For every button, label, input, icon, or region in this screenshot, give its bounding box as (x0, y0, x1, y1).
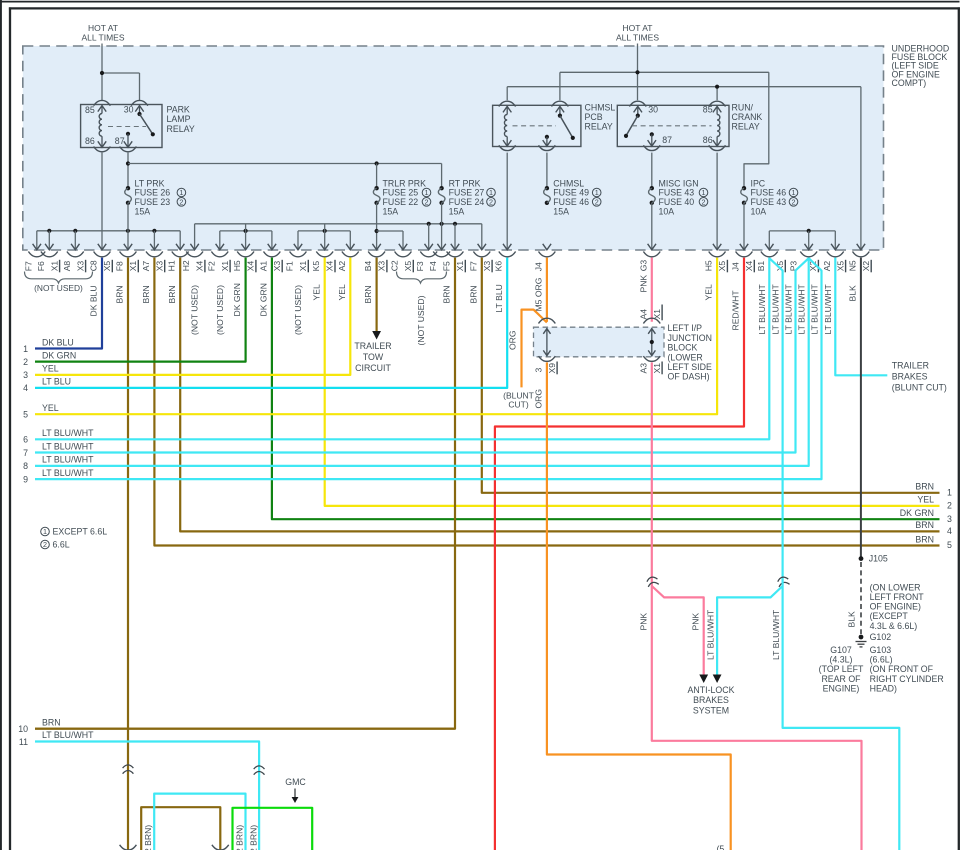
svg-text:X1: X1 (298, 261, 308, 272)
svg-text:15A: 15A (553, 206, 569, 216)
busB y231 (220, 230, 272, 232)
wires LT BLU/WHT fan from B1/P3/A2 (35, 258, 769, 440)
svg-text:X4: X4 (246, 261, 256, 272)
svg-text:X1: X1 (455, 261, 465, 272)
svg-text:LT BLU/WHT: LT BLU/WHT (809, 283, 819, 334)
svg-text:RELAY: RELAY (585, 122, 613, 132)
svg-text:BRN: BRN (141, 285, 151, 303)
svg-text:30: 30 (124, 104, 134, 114)
brace NOT USED C2-F4 group (397, 272, 447, 284)
wire BRN F7 to right row1 (482, 258, 940, 493)
wire YEL K5 to right row2 (325, 258, 940, 506)
wire BRN row10 (35, 728, 455, 730)
svg-text:YEL: YEL (704, 284, 714, 300)
svg-text:(ON FRONT OF: (ON FRONT OF (870, 664, 934, 674)
junction block LEFT I/P (dashed box) (534, 327, 665, 357)
svg-text:LT BLU/WHT: LT BLU/WHT (783, 283, 793, 334)
svg-text:A4: A4 (638, 309, 648, 320)
svg-text:LT BLU/WHT: LT BLU/WHT (42, 468, 94, 478)
footnote 2 6.6L (41, 540, 50, 549)
svg-text:(ON LOWER: (ON LOWER (870, 582, 921, 592)
svg-text:11: 11 (19, 737, 28, 747)
svg-text:LT BLU/WHT: LT BLU/WHT (770, 283, 780, 334)
svg-text:X1: X1 (652, 309, 662, 320)
ground G102 (859, 635, 864, 640)
svg-text:K5: K5 (311, 261, 321, 272)
svg-text:(NOT USED): (NOT USED) (293, 285, 303, 335)
svg-text:X5: X5 (403, 261, 413, 272)
svg-text:PNK: PNK (691, 613, 701, 631)
svg-text:85: 85 (703, 105, 713, 115)
svg-text:K6: K6 (494, 261, 504, 272)
svg-text:CRANK: CRANK (732, 112, 763, 122)
svg-text:86: 86 (85, 136, 95, 146)
svg-text:A8: A8 (62, 261, 72, 272)
svg-text:2: 2 (792, 197, 796, 206)
wire DK GRN H5 to row2 (35, 258, 246, 362)
svg-text:PCB: PCB (585, 112, 603, 122)
bus1 LT PRK y231 (37, 230, 180, 232)
wire DK GRN A1 to right row3 (272, 258, 940, 520)
busC y231 (298, 230, 350, 232)
svg-text:YEL: YEL (42, 403, 59, 413)
svg-text:1: 1 (947, 487, 952, 497)
svg-text:RELAY: RELAY (167, 124, 195, 134)
svg-text:X1: X1 (49, 261, 59, 272)
svg-text:F2: F2 (206, 261, 216, 271)
junction block pass-through left (546, 328, 548, 356)
wire BRN A7 to right row5 (154, 258, 939, 546)
svg-text:CHMSL: CHMSL (585, 103, 616, 113)
svg-text:C2: C2 (390, 260, 400, 271)
svg-text:A3: A3 (638, 363, 648, 374)
svg-text:1: 1 (595, 188, 599, 197)
svg-text:2 BRN): 2 BRN) (235, 825, 245, 850)
wire J4 IPC feed (743, 203, 745, 250)
svg-text:DK GRN: DK GRN (900, 508, 934, 518)
svg-text:1: 1 (792, 188, 796, 197)
svg-text:X2: X2 (861, 261, 871, 272)
svg-text:LT BLU: LT BLU (42, 377, 71, 387)
svg-text:X4: X4 (325, 261, 335, 272)
svg-text:30: 30 (648, 105, 658, 115)
wire YEL A2 to row3 (35, 258, 350, 375)
svg-text:RED/WHT: RED/WHT (731, 290, 741, 331)
svg-text:(NOT USED): (NOT USED) (416, 295, 426, 345)
wire LT BLU K6 to row4 (35, 258, 507, 388)
svg-text:YEL: YEL (917, 495, 934, 505)
svg-text:85: 85 (85, 105, 95, 115)
wire PNK G3 to junction block (651, 258, 653, 322)
svg-text:F4: F4 (428, 261, 438, 271)
svg-text:TOW: TOW (363, 352, 384, 362)
wire hot feed right (637, 44, 639, 73)
svg-text:X4: X4 (744, 261, 754, 272)
svg-text:2: 2 (425, 197, 429, 206)
svg-text:TRAILER: TRAILER (892, 360, 929, 370)
junction coil feed (715, 85, 719, 89)
svg-text:DK BLU: DK BLU (89, 285, 99, 316)
bottom cut-off cavity marks (120, 845, 137, 850)
page border top (9, 7, 960, 9)
page border right (958, 7, 960, 850)
fuse F27/F24 RT PRK 15A (439, 186, 443, 190)
wire ORG blunt cut branch (522, 310, 547, 388)
svg-text:2: 2 (595, 197, 599, 206)
svg-text:F1: F1 (285, 261, 295, 271)
svg-text:1: 1 (702, 188, 706, 197)
svg-text:(BLUNT CUT): (BLUNT CUT) (892, 382, 947, 392)
svg-text:F3: F3 (415, 261, 425, 271)
svg-text:LEFT FRONT: LEFT FRONT (870, 592, 925, 602)
wire BLK dashed to G102 (860, 562, 862, 634)
junction hot right (635, 70, 639, 74)
svg-text:H2: H2 (181, 260, 191, 271)
svg-text:LT BLU/WHT: LT BLU/WHT (797, 283, 807, 334)
svg-text:F7: F7 (468, 261, 478, 271)
underhood fuse block (dashed box) (23, 46, 884, 250)
svg-text:X5: X5 (835, 261, 845, 272)
svg-text:CUT): CUT) (508, 400, 528, 410)
svg-text:COMPT): COMPT) (892, 78, 927, 88)
page border left outer (0, 0, 2, 850)
branch LT BLU/WHT to anti-lock (717, 586, 783, 675)
wire BLK N5 (860, 258, 862, 559)
svg-text:BRN: BRN (363, 285, 373, 303)
bus coil feed y87 (507, 86, 861, 88)
relay K1 PARK LAMP RELAY (81, 100, 162, 151)
svg-text:3: 3 (23, 370, 28, 380)
svg-text:HEAD): HEAD) (870, 683, 897, 693)
svg-text:7: 7 (23, 448, 28, 458)
svg-text:LT BLU/WHT: LT BLU/WHT (771, 609, 781, 660)
svg-text:ENGINE): ENGINE) (823, 683, 860, 693)
svg-text:HOT AT: HOT AT (88, 23, 118, 33)
brace NOT USED left group (25, 272, 93, 284)
busB2 TRLR y231 (376, 203, 378, 250)
svg-text:ANTI-LOCK: ANTI-LOCK (688, 685, 735, 695)
svg-text:J4: J4 (533, 262, 543, 271)
bus switch feed y72 (560, 71, 769, 73)
svg-text:3: 3 (947, 514, 952, 524)
svg-text:EXCEPT 6.6L: EXCEPT 6.6L (53, 527, 108, 537)
svg-text:BRN: BRN (167, 285, 177, 303)
svg-text:X9: X9 (547, 363, 557, 374)
svg-text:BRN: BRN (468, 285, 478, 303)
connector row pins (arrows and cavities) (33, 244, 41, 250)
svg-text:2 BRN): 2 BRN) (143, 825, 153, 850)
wire relay86 to C8 (101, 153, 103, 250)
svg-text:(6.6L): (6.6L) (870, 655, 893, 665)
svg-text:G102: G102 (870, 632, 892, 642)
svg-text:LT BLU/WHT: LT BLU/WHT (42, 441, 94, 451)
footnote 1 EXCEPT 6.6L (41, 527, 50, 536)
svg-text:9: 9 (23, 474, 28, 484)
wire H5 feed (716, 153, 718, 250)
svg-text:J105: J105 (869, 554, 888, 564)
svg-text:(NOT USED): (NOT USED) (34, 283, 83, 293)
svg-text:87: 87 (662, 135, 672, 145)
junction hot left (100, 71, 104, 75)
wire BRN B4 trailer tow (376, 258, 378, 331)
wire BRN F5 to row10 (35, 258, 455, 729)
svg-text:(4.3L): (4.3L) (830, 655, 853, 665)
svg-text:X3: X3 (482, 261, 492, 272)
svg-text:BRN: BRN (115, 285, 125, 303)
svg-text:OF ENGINE): OF ENGINE) (870, 602, 921, 612)
junction J105 (859, 556, 864, 561)
relay K2 CHMSL PCB RELAY (493, 101, 581, 150)
svg-text:DK GRN: DK GRN (259, 283, 269, 316)
svg-text:X3: X3 (154, 261, 164, 272)
svg-text:1: 1 (489, 188, 493, 197)
svg-text:86: 86 (703, 135, 713, 145)
svg-text:1: 1 (43, 527, 47, 536)
svg-text:BRN: BRN (915, 520, 934, 530)
junction block pass-through right (651, 328, 653, 356)
svg-text:ORG: ORG (508, 330, 518, 350)
svg-text:F5: F5 (442, 261, 452, 271)
bus park fuse feed y163 (128, 163, 442, 165)
break on LT BLU/WHT wire (254, 766, 265, 769)
svg-text:SYSTEM: SYSTEM (693, 705, 729, 715)
wire LT BLU/WHT below splice (783, 578, 900, 850)
svg-text:(NOT USED): (NOT USED) (215, 285, 225, 335)
svg-text:BRN: BRN (442, 285, 452, 303)
wire BRN lower box (141, 807, 220, 850)
wire K6 feed (506, 153, 508, 250)
svg-text:G107: G107 (830, 645, 852, 655)
svg-text:TRAILER: TRAILER (354, 341, 391, 351)
svg-text:2: 2 (702, 197, 706, 206)
svg-text:DK GRN: DK GRN (42, 350, 76, 360)
svg-text:LEFT SIDE: LEFT SIDE (668, 362, 712, 372)
svg-text:5: 5 (23, 410, 28, 420)
svg-text:LT BLU/WHT: LT BLU/WHT (705, 609, 715, 660)
wire relay87 to fuse branch (127, 153, 129, 189)
svg-text:3: 3 (533, 368, 543, 373)
wire PNK below junction (652, 362, 862, 850)
svg-text:BRN: BRN (915, 482, 934, 492)
wire BRN F8 (127, 258, 129, 850)
svg-text:DK BLU: DK BLU (42, 337, 74, 347)
svg-text:GMC: GMC (285, 777, 306, 787)
svg-text:A1: A1 (258, 261, 268, 272)
svg-text:B4: B4 (363, 261, 373, 272)
svg-text:DK GRN: DK GRN (232, 283, 242, 316)
svg-text:87: 87 (115, 136, 125, 146)
wire IPC feed (744, 72, 769, 188)
svg-text:2: 2 (179, 197, 183, 206)
svg-text:10A: 10A (659, 206, 675, 216)
svg-text:2: 2 (43, 540, 47, 549)
svg-text:LT BLU/WHT: LT BLU/WHT (823, 283, 833, 334)
svg-text:G103: G103 (870, 645, 892, 655)
svg-text:10: 10 (18, 724, 28, 734)
wire LT BLU/WHT lower bridge (154, 794, 245, 850)
svg-text:15A: 15A (449, 206, 465, 216)
svg-text:(5: (5 (717, 844, 725, 850)
svg-text:HOT AT: HOT AT (623, 23, 653, 33)
fuse F43/F40 MISC IGN 10A (651, 153, 653, 189)
svg-text:X1: X1 (220, 261, 230, 272)
wire ORG below junction to bottom (547, 362, 731, 850)
svg-text:X4: X4 (195, 261, 205, 272)
svg-text:REAR OF: REAR OF (821, 674, 861, 684)
fuse F25/F22 TRLR PRK 15A (374, 186, 378, 190)
svg-text:C8: C8 (89, 260, 99, 271)
page border left inner (9, 7, 11, 850)
svg-text:LAMP: LAMP (167, 114, 191, 124)
svg-text:G3: G3 (638, 260, 648, 272)
svg-text:PNK: PNK (638, 613, 648, 631)
fuse F26/F23 LT PRK 15A (126, 186, 130, 190)
svg-text:BRN: BRN (915, 534, 934, 544)
svg-text:H1: H1 (167, 260, 177, 271)
wire hot feed left (101, 44, 103, 101)
svg-text:RELAY: RELAY (732, 122, 760, 132)
svg-text:(NOT USED): (NOT USED) (190, 285, 200, 335)
svg-text:J4: J4 (731, 262, 741, 271)
svg-text:X3: X3 (75, 261, 85, 272)
svg-text:F7: F7 (23, 261, 33, 271)
svg-text:LT BLU: LT BLU (494, 284, 504, 312)
wire BLK drop (860, 87, 862, 250)
svg-text:BLOCK: BLOCK (668, 343, 698, 353)
svg-text:JUNCTION: JUNCTION (668, 333, 712, 343)
svg-text:ALL TIMES: ALL TIMES (82, 33, 125, 43)
svg-text:X5: X5 (717, 261, 727, 272)
wire RED/WHT J4 (495, 258, 744, 850)
svg-text:LT BLU/WHT: LT BLU/WHT (42, 428, 94, 438)
svg-text:X3: X3 (377, 261, 387, 272)
arrows ANTI-LOCK BRAKES SYSTEM (699, 675, 708, 684)
relay K3 RUN/CRANK RELAY (617, 101, 729, 150)
busA y224 (195, 223, 482, 225)
svg-text:4: 4 (23, 383, 28, 393)
svg-text:YEL: YEL (42, 364, 59, 374)
svg-text:A2: A2 (822, 261, 832, 272)
svg-text:BRAKES: BRAKES (892, 371, 928, 381)
svg-text:X1: X1 (652, 363, 662, 374)
svg-text:6.6L: 6.6L (53, 540, 70, 550)
svg-text:(EXCEPT: (EXCEPT (870, 611, 909, 621)
svg-text:15A: 15A (135, 206, 151, 216)
svg-text:(LOWER: (LOWER (668, 352, 703, 362)
svg-text:X3: X3 (272, 261, 282, 272)
svg-text:BLK: BLK (848, 285, 858, 302)
branch PNK to anti-lock (652, 586, 704, 675)
svg-text:15A: 15A (383, 206, 399, 216)
svg-text:B1: B1 (756, 261, 766, 272)
page border top outer (0, 1, 960, 3)
svg-text:X5: X5 (102, 261, 112, 272)
svg-text:F8: F8 (115, 261, 125, 271)
splice on PNK (646, 576, 659, 587)
svg-text:LEFT I/P: LEFT I/P (668, 323, 703, 333)
svg-text:LT BLU/WHT: LT BLU/WHT (42, 455, 94, 465)
svg-text:YEL: YEL (337, 284, 347, 300)
svg-text:2 BRN): 2 BRN) (248, 825, 258, 850)
svg-text:ORG: ORG (534, 389, 544, 409)
svg-text:(TOP LEFT: (TOP LEFT (819, 664, 864, 674)
svg-text:BRN: BRN (42, 717, 61, 727)
svg-text:N5: N5 (847, 260, 857, 271)
svg-text:5: 5 (947, 540, 952, 550)
svg-text:LT BLU/WHT: LT BLU/WHT (42, 730, 94, 740)
svg-text:A2: A2 (337, 261, 347, 272)
svg-text:YEL: YEL (311, 284, 321, 300)
wire YEL H5 to row5 (35, 258, 717, 415)
svg-text:CIRCUIT: CIRCUIT (355, 363, 391, 373)
splice on LT BLU/WHT (777, 576, 790, 587)
svg-text:PARK: PARK (167, 105, 190, 115)
svg-text:ALL TIMES: ALL TIMES (616, 33, 659, 43)
svg-text:6: 6 (23, 435, 28, 445)
svg-text:1: 1 (23, 344, 28, 354)
svg-text:BRAKES: BRAKES (693, 695, 729, 705)
svg-text:M5 ORG: M5 ORG (534, 277, 544, 311)
svg-text:RIGHT CYLINDER: RIGHT CYLINDER (870, 674, 944, 684)
wire ORG J4 to junction block (546, 258, 548, 322)
svg-text:F6: F6 (36, 261, 46, 271)
svg-text:LT BLU/WHT: LT BLU/WHT (757, 283, 767, 334)
wire GRN GMC box (233, 808, 313, 850)
svg-text:OF DASH): OF DASH) (668, 372, 710, 382)
wire BRN H1 to right row4 (180, 258, 939, 532)
wire DK BLU C8 circuit 1 (35, 258, 102, 349)
svg-text:2: 2 (489, 197, 493, 206)
fuse F49/F46 CHMSL 15A (546, 153, 548, 189)
svg-text:4.3L & 6.6L): 4.3L & 6.6L) (870, 621, 918, 631)
fuse F46/F43 IPC 10A (742, 186, 746, 190)
svg-text:8: 8 (23, 461, 28, 471)
arrow to trailer tow circuit (372, 331, 381, 340)
svg-text:1: 1 (425, 188, 429, 197)
svg-text:10A: 10A (751, 206, 767, 216)
busD splice y231 (769, 230, 835, 232)
wire G3 feed (651, 203, 653, 250)
svg-text:H5: H5 (704, 260, 714, 271)
svg-text:4: 4 (947, 526, 952, 536)
svg-text:H5: H5 (232, 260, 242, 271)
wire LT BLU/WHT row11 (35, 742, 259, 850)
svg-text:1: 1 (179, 188, 183, 197)
svg-text:X1: X1 (128, 261, 138, 272)
svg-text:BLK: BLK (847, 611, 857, 628)
svg-text:2: 2 (23, 357, 28, 367)
svg-text:A7: A7 (141, 261, 151, 272)
svg-text:RUN/: RUN/ (732, 103, 754, 113)
svg-text:2: 2 (947, 501, 952, 511)
svg-text:PNK: PNK (638, 275, 648, 293)
break on BRN wire (123, 765, 134, 768)
